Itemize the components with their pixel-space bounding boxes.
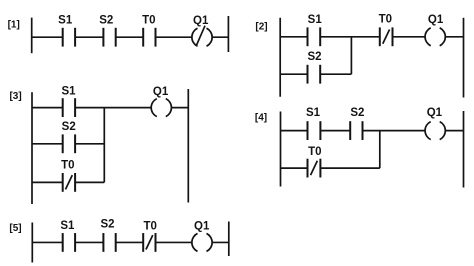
left power rail rung 2: [279, 18, 281, 97]
wire T0 to coil Q1 rung 1: [156, 36, 193, 38]
wire T0 to junction rung 4: [320, 167, 379, 169]
negated contact T0 rung 4: [308, 146, 322, 178]
left power rail rung 1: [31, 18, 33, 54]
left power rail rung 4: [280, 112, 282, 187]
wire coil to right rail rung 3: [171, 107, 188, 109]
svg-text:Q1: Q1: [194, 220, 210, 232]
wire rail to S1 rung 4: [281, 130, 308, 132]
left power rail rung 5: [31, 223, 33, 263]
svg-text:S2: S2: [62, 121, 76, 133]
right power rail rung 3: [187, 89, 189, 203]
svg-text:[2]: [2]: [255, 21, 267, 32]
right power rail rung 1: [227, 16, 229, 52]
wire rail to S1 rung 1: [32, 36, 63, 38]
right power rail rung 5: [228, 222, 230, 257]
right power rail rung 2: [463, 18, 465, 98]
wire rail to T0 rung 3: [32, 181, 63, 183]
contact S1 rung 3: [61, 85, 76, 117]
negated contact T0 rung 5: [143, 220, 157, 252]
left power rail rung 3: [31, 92, 33, 204]
wire T0 to coil rung 2: [393, 36, 426, 38]
wire rail to S1 rung 3: [32, 107, 63, 109]
svg-text:S2: S2: [99, 14, 113, 26]
right power rail rung 4: [463, 111, 465, 188]
wire S2 to junction rung 2: [320, 73, 351, 75]
wire S2 to coil rung 4: [363, 130, 426, 132]
wire S2 to junction rung 3: [75, 143, 104, 145]
svg-text:Q1: Q1: [153, 86, 169, 98]
negated contact T0 rung 2: [379, 14, 393, 47]
branch junction rung 3: [103, 108, 105, 183]
contact S1 rung 4: [306, 107, 321, 140]
contact S2 rung 2: [307, 51, 321, 83]
wire rail to S1 rung 5: [32, 241, 62, 243]
svg-text:S1: S1: [308, 14, 323, 26]
svg-text:T0: T0: [61, 160, 74, 172]
wire coil to right rail rung 1: [212, 36, 228, 38]
contact S2 rung 4: [350, 107, 364, 140]
wire rail to S2 rung 3: [32, 143, 63, 145]
svg-text:S2: S2: [100, 219, 114, 231]
contact S1 rung 1: [58, 14, 75, 46]
contact S2 rung 5: [100, 219, 115, 252]
wire S1 to T0 rung 2: [320, 36, 380, 38]
svg-text:S1: S1: [60, 220, 75, 232]
wire rail to T0 rung 4: [281, 167, 308, 169]
wire rail to S2 rung 2: [280, 73, 307, 75]
svg-text:S1: S1: [58, 14, 73, 26]
wire S1 to S2 rung 1: [75, 36, 103, 38]
svg-text:T0: T0: [142, 14, 155, 26]
wire coil to right rail rung 2: [445, 36, 463, 38]
svg-text:Q1: Q1: [193, 15, 209, 27]
wire S1 to S2 rung 5: [75, 241, 103, 243]
svg-text:[3]: [3]: [9, 91, 21, 102]
negated contact T0 rung 3: [61, 160, 75, 192]
wire T0 to coil Q1 rung 5: [156, 241, 193, 243]
contact S2 rung 3: [62, 121, 76, 153]
contact S1 rung 5: [60, 220, 75, 252]
svg-text:[5]: [5]: [9, 223, 21, 234]
svg-text:S2: S2: [307, 51, 321, 63]
branch junction rung 2: [350, 37, 352, 74]
branch junction rung 4: [379, 131, 381, 169]
wire rail to S1 rung 2: [280, 36, 307, 38]
svg-text:S1: S1: [61, 85, 76, 97]
svg-text:[4]: [4]: [255, 112, 267, 123]
svg-text:T0: T0: [143, 220, 156, 232]
svg-text:Q1: Q1: [428, 14, 444, 26]
contact S1 rung 2: [308, 14, 323, 46]
wire coil to right rail rung 5: [212, 241, 229, 243]
svg-text:S1: S1: [306, 107, 321, 119]
svg-text:S2: S2: [350, 107, 364, 119]
wire S2 to T0 rung 1: [116, 36, 144, 38]
wire S2 to T0 rung 5: [116, 241, 144, 243]
negated coil Q1 rung 1: [192, 15, 212, 46]
contact T0 rung 1: [142, 14, 155, 46]
wire coil to right rail rung 4: [445, 130, 463, 132]
coil Q1 rung 3: [151, 86, 171, 117]
wire S1 to S2 rung 4: [320, 130, 350, 132]
coil Q1 rung 2: [425, 14, 445, 46]
svg-text:Q1: Q1: [427, 107, 443, 119]
coil Q1 rung 4: [425, 107, 445, 140]
contact S2 rung 1: [99, 14, 115, 46]
svg-text:[1]: [1]: [8, 19, 20, 30]
svg-text:T0: T0: [308, 146, 321, 158]
wire T0 to junction rung 3: [75, 181, 104, 183]
svg-text:T0: T0: [379, 14, 392, 26]
wire S1 to coil rung 3: [75, 107, 151, 109]
coil Q1 rung 5: [192, 220, 212, 251]
